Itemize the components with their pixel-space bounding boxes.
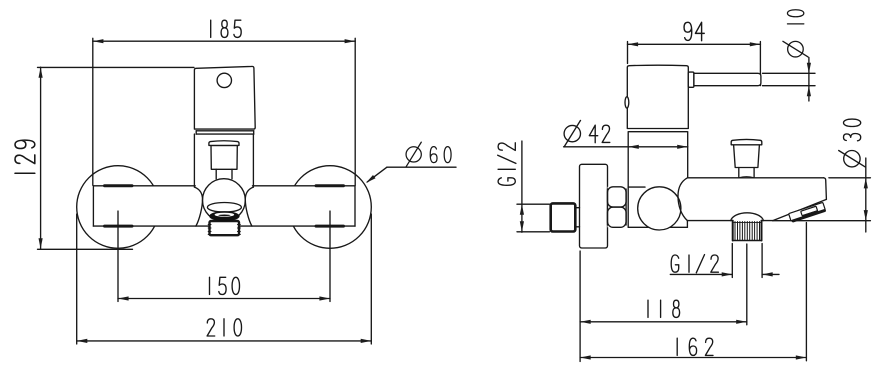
inlet nipple [551, 203, 576, 231]
label D60 text [406, 142, 451, 167]
dimension 162 line [580, 223, 806, 361]
dimension D42 text [564, 120, 610, 147]
shower outlet thread block [733, 221, 762, 241]
dimension 129 text (rotated) [15, 140, 35, 173]
dimension G1/2 left lines [517, 141, 550, 232]
dimension 118 line [580, 251, 747, 362]
tip aerator (slanted) [789, 202, 826, 221]
diverter cup (front) [209, 141, 239, 170]
label D60 leader [365, 167, 456, 184]
spout top edge [688, 177, 824, 179]
ball joint sphere (side) [638, 187, 681, 230]
aerator dark ring [209, 211, 239, 221]
dimension G1/2 left text (rotated) [498, 143, 516, 186]
mount nut ticks right [316, 186, 344, 226]
spout bottom edge [687, 220, 772, 222]
right bell fillet [245, 187, 253, 226]
dimension G1/2 bottom text [671, 255, 718, 273]
left bell fillet [195, 187, 203, 226]
lever collar [688, 72, 694, 87]
dimension D10 lines [763, 58, 816, 102]
body shoulder line [628, 186, 645, 188]
aerator housing rect (front) [210, 221, 240, 235]
dimension 185 line [93, 38, 355, 185]
aerator knurl ticks [208, 225, 240, 235]
spout sphere (front) [203, 179, 246, 222]
shower outlet dome [731, 213, 764, 221]
body column sides [194, 134, 253, 187]
dimension 185 text [211, 20, 242, 37]
left escutcheon circle [77, 166, 160, 249]
dimension 94 text [684, 22, 704, 40]
spacer [575, 208, 580, 227]
dimension 150 [118, 211, 330, 302]
cup stem [216, 169, 232, 179]
hex nut [608, 187, 627, 228]
lower body ring top [629, 131, 687, 133]
dimension D10 text (rotated) [783, 10, 808, 57]
diverter knob (side) [731, 139, 762, 167]
diverter stem [739, 168, 754, 178]
spout tip end face [824, 178, 827, 200]
wall flange (side) [580, 164, 608, 248]
right escutcheon circle [289, 166, 372, 249]
outlet centre extension [746, 244, 748, 325]
mount nut ticks left [105, 186, 133, 226]
dimension 150 text [210, 277, 240, 294]
handle cap circle [217, 73, 231, 87]
set screw dimple [625, 97, 629, 108]
cartridge ring [196, 131, 254, 134]
spout underside slant [773, 199, 827, 220]
dimension 94 line [628, 42, 761, 86]
dimension 162 text [677, 338, 713, 355]
handle body (front) [194, 66, 255, 129]
dimension D42 line [564, 145, 688, 149]
dimension 210 text [207, 319, 241, 336]
dimension 118 text [648, 300, 680, 317]
spout step [686, 221, 688, 228]
dimension D30 text (rotated) [839, 119, 866, 167]
dimension G1/2 bottom leader [670, 244, 779, 278]
wall bar body [93, 186, 355, 226]
lower body sides [628, 132, 688, 228]
dimension 129 line [38, 67, 195, 249]
dimension D30 lines [773, 158, 871, 232]
dimension 210 [77, 214, 372, 344]
body bottom ledge [628, 226, 687, 228]
valve body (side) [627, 65, 688, 128]
lever rod [694, 73, 761, 85]
spout-body fillet curve [678, 178, 687, 221]
aerator flange ellipse [207, 203, 241, 213]
